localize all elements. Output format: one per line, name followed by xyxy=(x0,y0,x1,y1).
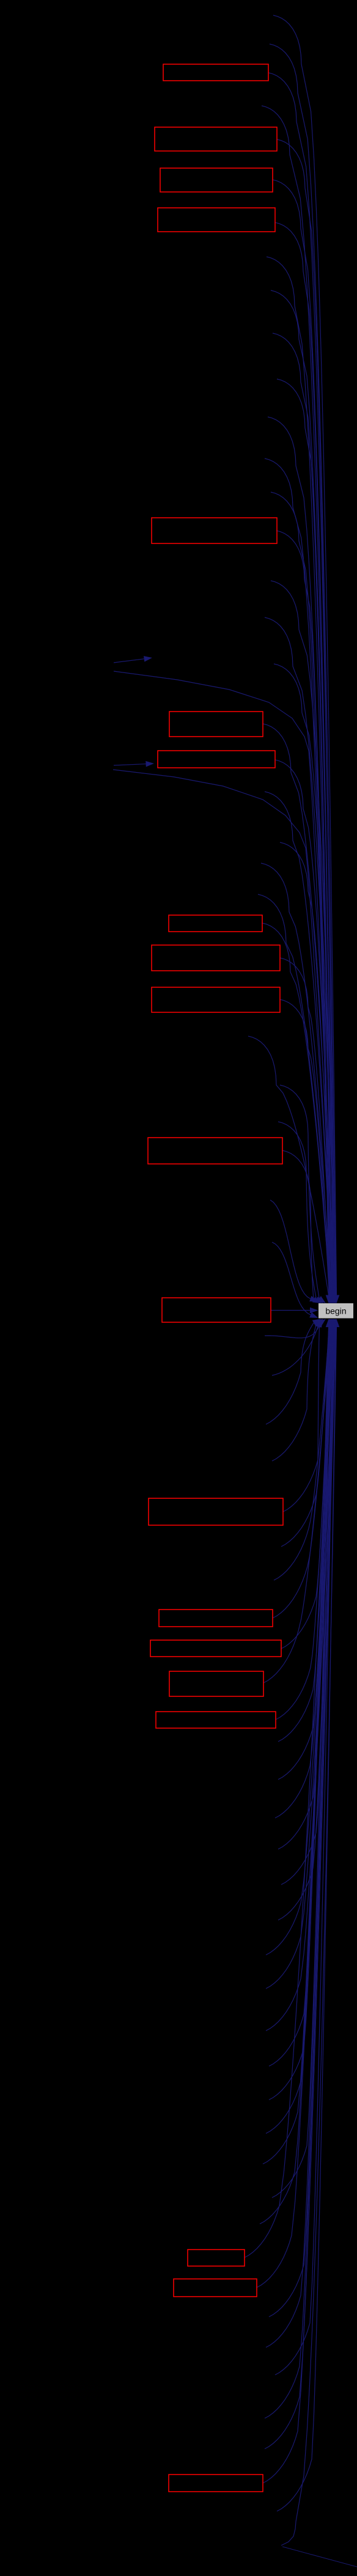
red caller node 9 xyxy=(152,945,280,971)
arrowhead of edge from caller y=3025 xyxy=(331,1319,337,1328)
edge from caller y=750 xyxy=(265,458,330,1295)
edge from caller y=3253 xyxy=(266,1327,336,1989)
arrowhead of edge from caller y=3790 xyxy=(330,1319,336,1328)
edge from caller y=2647 xyxy=(273,1327,330,1618)
edge from caller y=1510 xyxy=(262,923,330,1295)
arrowhead of edge from caller y=364 xyxy=(330,1295,336,1304)
edge from caller y=545 xyxy=(273,333,331,1295)
arrowhead of edge from caller y=3253 xyxy=(333,1319,339,1328)
edge from caller y=475 xyxy=(271,290,332,1295)
arrowhead of edge from caller y=3742 xyxy=(329,1319,336,1328)
edge from caller y=3322 xyxy=(266,1327,336,2031)
edge from caller y=3380 xyxy=(269,1327,329,2066)
arrowhead of edge from caller y=868 xyxy=(326,1295,332,1304)
edge from caller y=1835 xyxy=(278,1122,316,1299)
arrowhead of edge from caller y=2697 xyxy=(328,1319,334,1328)
arrowhead of edge from caller y=682 xyxy=(328,1295,334,1304)
edge from caller y=3141 xyxy=(278,1327,335,1920)
edge from caller y=2390 xyxy=(272,1323,317,1461)
red caller node 12 xyxy=(162,1298,271,1322)
arrowhead of edge from caller y=3083 xyxy=(331,1319,337,1328)
edge from caller y=1086 xyxy=(274,664,335,1295)
edge from caller y=620 xyxy=(277,379,331,1295)
edge from caller y=25 xyxy=(273,15,337,1295)
edge from caller y=2849 xyxy=(278,1327,332,1742)
arrowhead of edge from caller y=2143 (horizontal) xyxy=(310,1308,318,1314)
edge from caller y=1098 xyxy=(114,671,334,1295)
edge from caller y=3693 xyxy=(245,1327,332,2258)
red caller node 17 xyxy=(156,1712,276,1728)
arrowhead of edge from caller y=173 xyxy=(332,1295,338,1304)
arrowhead of edge from caller y=3638 xyxy=(328,1319,334,1328)
arrowhead of edge from caller y=545 xyxy=(329,1295,335,1304)
arrowhead of edge from caller y=1963 xyxy=(309,1296,318,1301)
arrowhead of edge from caller y=1635 xyxy=(326,1295,333,1304)
edge from caller y=3790 xyxy=(269,1327,333,2317)
edge from caller y=3083 xyxy=(281,1327,334,1885)
edge from caller y=3595 xyxy=(272,1327,331,2198)
red caller node 15 xyxy=(150,1640,281,1657)
edge from caller y=3490 xyxy=(266,1327,329,2133)
arrowhead of edge from caller y=3540 xyxy=(327,1319,333,1328)
arrowhead of edge from caller y=2530 xyxy=(326,1319,332,1328)
edge from caller y=2530 xyxy=(281,1327,329,1547)
edge from caller y=868 xyxy=(276,531,329,1295)
arrowhead of edge from caller y=1463 xyxy=(328,1295,334,1304)
red caller node 4 xyxy=(158,208,275,232)
edge from caller y=805 xyxy=(271,492,329,1295)
arrowhead of edge from caller y=1510 xyxy=(327,1295,333,1304)
edge from caller y=1963 xyxy=(270,1200,311,1299)
arrowhead of edge from caller y=4108 xyxy=(333,1319,339,1328)
arrowhead of edge from caller y=1695 xyxy=(326,1295,332,1304)
arrowhead of edge from caller y=3198 xyxy=(333,1319,339,1328)
arrowhead of edge from caller y=1086 xyxy=(333,1295,339,1304)
edge from caller y=2697 xyxy=(281,1327,331,1649)
edge from caller y=1635 xyxy=(280,999,329,1295)
arrowhead of edge from caller y=1184 xyxy=(331,1295,337,1304)
edge from caller y=1010 xyxy=(265,617,336,1295)
arrowhead of edge from caller y=950 xyxy=(333,1295,339,1304)
edge from caller y=2185 xyxy=(265,1327,319,1338)
edge from caller y=294 xyxy=(273,180,334,1295)
edge from caller y=1243 xyxy=(275,760,334,1295)
arrowhead of edge from caller y=1775 xyxy=(317,1296,326,1303)
arrowhead of edge from caller y=25 xyxy=(334,1295,340,1304)
arrowhead of edge from caller y=3840 xyxy=(331,1319,337,1328)
edge from caller y=1184 xyxy=(263,724,334,1295)
arrowhead of edge from caller y=3141 xyxy=(332,1319,338,1328)
edge from caller y=3540 xyxy=(263,1327,330,2164)
edge from caller y=364 xyxy=(275,223,333,1295)
clipped edge exiting bottom right xyxy=(282,2547,357,2567)
arrowhead of edge from caller y=750 xyxy=(327,1295,333,1304)
red caller node 7 xyxy=(158,751,275,768)
edge from caller y=2473 xyxy=(283,1324,320,1512)
arrowhead of edge from caller y=2813 xyxy=(329,1319,335,1328)
edge from caller y=3885 xyxy=(275,1327,334,2375)
arrowhead of edge from caller y=2032 xyxy=(309,1312,318,1319)
edge from caller y=1775 xyxy=(280,1085,319,1298)
arrowhead of edge from caller y=2250 xyxy=(315,1319,320,1328)
edge from caller y=1882 xyxy=(282,1150,314,1300)
arrowhead of edge from caller y=420 xyxy=(329,1295,336,1304)
arrowhead of edge from caller y=1567 xyxy=(327,1295,333,1304)
edge from caller y=2330 xyxy=(266,1323,314,1424)
edge from caller y=3638 xyxy=(260,1327,331,2224)
edge from caller y=4006 xyxy=(265,1327,335,2449)
edge from caller y=1695 xyxy=(248,1036,329,1295)
edge from caller y=950 xyxy=(271,581,336,1295)
arrowhead of edge from caller y=2185 xyxy=(316,1319,322,1328)
arrowhead of edge from caller y=2390 xyxy=(315,1319,323,1326)
arrowhead of edge from caller y=2753 xyxy=(328,1319,334,1328)
arrowhead of edge from caller y=1295 xyxy=(329,1295,336,1304)
red caller node 19 xyxy=(174,2279,257,2297)
arrowhead of edge from caller y=2849 xyxy=(329,1319,335,1328)
edge from caller y=4164 xyxy=(281,1327,337,2545)
begin node xyxy=(318,1303,353,1319)
arrowhead of edge from caller y=3380 xyxy=(326,1319,332,1328)
edge from caller y=3742 xyxy=(257,1327,333,2287)
edge from caller y=2585 xyxy=(274,1327,329,1580)
arrowhead of edge from caller y=1882 xyxy=(312,1297,321,1303)
arrowhead of edge from caller y=2330 xyxy=(312,1319,321,1326)
arrowhead of edge from caller y=2585 xyxy=(326,1319,333,1328)
edge from caller y=1567 xyxy=(280,958,329,1295)
arrowhead of edge from caller y=620 xyxy=(328,1295,334,1304)
arrowhead of edge from caller y=4062 xyxy=(333,1319,339,1328)
red caller node 20 xyxy=(169,2475,263,2492)
arrowhead of edge from caller y=4164 xyxy=(334,1319,340,1328)
edge from caller y=1463 xyxy=(258,894,331,1295)
edge from caller y=3025 xyxy=(278,1327,334,1849)
red caller node 14 xyxy=(159,1610,273,1627)
arrowhead of edge from caller y=3435 xyxy=(326,1319,333,1328)
arrowhead of edge from caller y=72 xyxy=(333,1295,339,1304)
edge from caller y=3198 xyxy=(266,1327,335,1955)
edge from caller y=2974 xyxy=(275,1327,333,1818)
edge left-node to red box 7 xyxy=(114,764,146,765)
red caller node 13 xyxy=(149,1498,283,1525)
red caller node 8 xyxy=(169,915,262,932)
arrowhead of edge from caller y=3693 xyxy=(329,1319,335,1328)
arrowhead of edge from caller y=1412 xyxy=(328,1295,334,1304)
edge from caller y=2143 (horizontal) xyxy=(271,1310,310,1311)
arrowhead of edge from caller y=3490 xyxy=(326,1319,333,1328)
red caller node 10 xyxy=(152,987,280,1012)
edge from caller y=3435 xyxy=(269,1327,329,2100)
edge from caller y=3956 xyxy=(265,1327,334,2418)
red caller node 11 xyxy=(148,1138,282,1164)
edge from caller y=4108 xyxy=(277,1327,336,2511)
arrowhead of edge from caller y=1243 xyxy=(331,1295,337,1304)
edge from caller y=2911 xyxy=(278,1327,333,1779)
arrowhead of edge from caller y=475 xyxy=(329,1295,336,1304)
edge from caller y=2250 xyxy=(272,1327,318,1376)
red caller node 2 xyxy=(155,127,277,151)
edge from caller y=173 xyxy=(262,106,335,1295)
edge from caller y=2753 xyxy=(263,1327,331,1683)
arrowhead of edge from caller y=3595 xyxy=(328,1319,334,1328)
svg-text:begin: begin xyxy=(325,1306,346,1316)
arrowhead of edge from caller y=3322 xyxy=(333,1319,339,1328)
arrowhead of edge from caller y=1010 xyxy=(333,1295,339,1304)
arrowhead of edge from caller y=805 xyxy=(326,1295,333,1304)
arrowhead of edge from caller y=2974 xyxy=(330,1319,336,1328)
arrowhead of edge from caller y=1378 xyxy=(329,1295,335,1304)
arrowhead of edge from caller y=119 xyxy=(333,1295,339,1304)
arrowhead of edge from caller y=228 xyxy=(331,1295,337,1304)
red caller node 5 xyxy=(152,518,277,543)
red caller node 6 xyxy=(169,712,263,737)
arrowhead of edge from caller y=1098 xyxy=(332,1295,338,1304)
edge from caller y=2813 xyxy=(276,1327,331,1720)
arrowhead of edge from caller y=294 xyxy=(331,1295,337,1304)
arrowhead of edge from caller y=3885 xyxy=(331,1319,337,1328)
arrowhead of edge from caller y=2473 xyxy=(318,1319,326,1327)
edge from caller y=682 xyxy=(268,417,331,1295)
arrowhead of edge from caller y=2647 xyxy=(327,1319,333,1328)
edge from caller y=119 xyxy=(268,73,336,1295)
edge from caller y=228 xyxy=(277,139,334,1295)
arrowhead of edge from caller y=1259 xyxy=(330,1295,336,1304)
edge from caller y=1412 xyxy=(261,863,331,1295)
arrowhead of edge from caller y=3956 xyxy=(331,1319,337,1328)
red caller node 18 xyxy=(188,2250,245,2266)
arrowhead of edge from caller y=2911 xyxy=(329,1319,336,1328)
red caller node 1 xyxy=(163,64,268,81)
arrowhead of edge from caller y=4006 xyxy=(332,1319,338,1328)
edge from caller y=2032 xyxy=(272,1242,311,1315)
red caller node 16 xyxy=(169,1671,263,1696)
edge from caller y=72 xyxy=(270,44,336,1295)
arrowhead of edge from caller y=1835 xyxy=(315,1297,323,1303)
edge from caller y=4062 xyxy=(263,1327,336,2483)
edge from caller y=3840 xyxy=(266,1327,333,2347)
edge from caller y=1259 xyxy=(113,770,333,1295)
edge from caller y=1295 xyxy=(265,792,333,1295)
edge from caller y=1378 xyxy=(280,842,332,1295)
red caller node 3 xyxy=(160,168,273,192)
edge left-node to hidden node y=1080 xyxy=(114,659,144,663)
edge from caller y=420 xyxy=(267,257,333,1295)
